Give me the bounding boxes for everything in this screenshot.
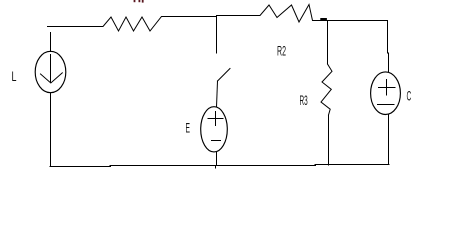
svg-text:E: E [186, 120, 191, 136]
svg-text:L: L [12, 68, 17, 84]
svg-text:C: C [407, 88, 412, 104]
svg-text:R3: R3 [300, 92, 308, 108]
svg-text:R2: R2 [277, 43, 286, 59]
